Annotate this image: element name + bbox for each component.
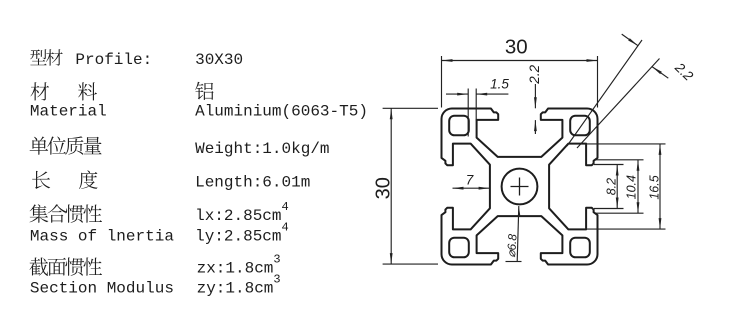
dim 2.2 top slot [534, 84, 536, 108]
svg-text:2.2: 2.2 [527, 64, 542, 84]
row5 length [32, 171, 50, 189]
dim 7 [453, 187, 490, 189]
svg-text:4: 4 [282, 200, 289, 214]
svg-text:⌀6.8: ⌀6.8 [504, 233, 520, 258]
dim 10.4 [594, 159, 644, 161]
row4 weight [30, 136, 49, 154]
svg-text:Length:6.01m: Length:6.01m [195, 174, 310, 192]
center hole [502, 169, 538, 205]
svg-text:ly:2.85cm: ly:2.85cm [195, 228, 281, 246]
svg-text:8.2: 8.2 [604, 178, 618, 195]
dim 8.2 [594, 164, 624, 166]
dim 2.2 corner diagonal [567, 40, 642, 146]
dim 16.5 [584, 143, 666, 145]
svg-text:16.5: 16.5 [647, 175, 661, 199]
row2 material label [31, 82, 50, 100]
svg-text:3: 3 [273, 253, 280, 267]
dim phi6.8 leader [517, 206, 519, 262]
svg-text:Aluminium(6063-T5): Aluminium(6063-T5) [195, 103, 368, 121]
svg-text:30: 30 [372, 177, 394, 199]
svg-text:30X30: 30X30 [195, 51, 243, 69]
dim 30 top [441, 56, 443, 108]
svg-text:Weight:1.0kg/m: Weight:1.0kg/m [195, 140, 329, 158]
corner holes [449, 116, 469, 136]
svg-text:Profile:: Profile: [75, 51, 152, 69]
dim 30 left [383, 107, 438, 109]
svg-text:7: 7 [466, 172, 474, 187]
svg-text:Mass of lnertia: Mass of lnertia [30, 228, 174, 246]
svg-text:10.4: 10.4 [624, 175, 638, 199]
svg-text:4: 4 [282, 221, 289, 235]
svg-text:lx:2.85cm: lx:2.85cm [195, 207, 281, 225]
row6 inertia cjk + lx [30, 204, 49, 223]
svg-text:Section Modulus: Section Modulus [30, 280, 174, 298]
center cross [511, 186, 529, 188]
dim 1.5 [467, 89, 469, 137]
svg-text:30: 30 [505, 36, 528, 59]
svg-text:2.2: 2.2 [671, 59, 696, 84]
profile outline [442, 109, 598, 265]
svg-text:1.5: 1.5 [490, 77, 509, 92]
row8 modulus cjk + zx [30, 258, 49, 276]
row1 profile label [30, 49, 46, 65]
svg-text:zy:1.8cm: zy:1.8cm [197, 280, 274, 298]
svg-text:zx:1.8cm: zx:1.8cm [197, 260, 274, 278]
svg-text:3: 3 [273, 273, 280, 287]
svg-text:Material: Material [30, 103, 107, 121]
